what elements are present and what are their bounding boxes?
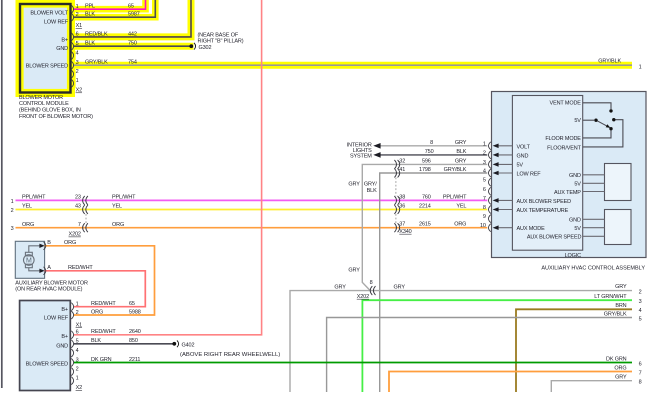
U2 pin numbers 1-10 xyxy=(480,141,486,229)
svg-text:2615: 2615 xyxy=(419,222,431,228)
connector X340 arcs xyxy=(394,160,399,232)
highlight: wire BLK 750 xyxy=(72,43,194,50)
svg-text:GRY/: GRY/ xyxy=(364,182,377,188)
U2 mode switch wiring xyxy=(583,103,623,147)
motor M1 auxiliary blower motor box xyxy=(15,241,44,278)
svg-text:750: 750 xyxy=(128,41,137,47)
wire RED/WHT 2640 U3 pin6 to top edge xyxy=(74,0,262,335)
svg-text:LOW REF: LOW REF xyxy=(517,172,542,178)
svg-text:AUX TEMPERATURE: AUX TEMPERATURE xyxy=(517,208,569,214)
svg-text:GRY: GRY xyxy=(455,158,467,164)
svg-text:4: 4 xyxy=(76,50,79,56)
module U1 blower motor control module box xyxy=(20,4,71,93)
svg-text:LOGIC: LOGIC xyxy=(565,253,582,259)
svg-text:GND: GND xyxy=(517,153,529,159)
svg-text:4: 4 xyxy=(483,169,486,175)
svg-text:1: 1 xyxy=(76,4,79,10)
svg-text:GRY: GRY xyxy=(348,267,360,273)
svg-text:LOW REF: LOW REF xyxy=(44,316,69,322)
U1 pin arcs X1/X2 xyxy=(71,5,73,87)
svg-text:FLOOR/VENT: FLOOR/VENT xyxy=(547,145,581,151)
svg-text:23: 23 xyxy=(75,195,81,201)
left wire labels after X202 xyxy=(112,195,136,228)
svg-text:M: M xyxy=(26,257,32,264)
svg-text:5V: 5V xyxy=(517,163,524,169)
svg-text:GRY: GRY xyxy=(348,182,360,188)
wire GRY right edge pin8 xyxy=(551,381,632,392)
svg-text:2211: 2211 xyxy=(129,357,140,363)
svg-text:1: 1 xyxy=(76,376,79,382)
svg-text:BLK: BLK xyxy=(456,149,466,155)
U3 pin arcs X1/X2 xyxy=(71,303,73,385)
svg-text:5988: 5988 xyxy=(129,309,141,315)
svg-text:(ABOVE RIGHT REAR WHEELWELL): (ABOVE RIGHT REAR WHEELWELL) xyxy=(180,352,280,358)
svg-text:1: 1 xyxy=(76,78,79,84)
wire GRY 596 U2 pin3 down to X202 pin8 xyxy=(362,164,487,290)
wire BLK 750 interior lights to U2 pin2 xyxy=(380,154,488,156)
svg-text:3: 3 xyxy=(11,226,14,232)
svg-text:596: 596 xyxy=(422,158,431,164)
svg-text:2: 2 xyxy=(76,69,79,75)
svg-text:GND: GND xyxy=(569,218,581,224)
highlight: unconnected pin 1 arc of X2 xyxy=(71,79,76,88)
svg-text:YEL: YEL xyxy=(112,204,122,210)
svg-text:DK GRN: DK GRN xyxy=(606,357,627,363)
wire PPL/WHT 23/760 left edge to U2 pin7 xyxy=(16,199,488,201)
svg-text:ORG: ORG xyxy=(64,240,76,246)
X202 pin8 area labels xyxy=(334,267,405,300)
ground G302 xyxy=(189,43,195,50)
svg-text:RED/WHT: RED/WHT xyxy=(91,301,116,307)
svg-text:X202: X202 xyxy=(69,232,81,238)
X340 circuit numbers xyxy=(419,158,431,227)
svg-text:RIGHT "B" PILLAR): RIGHT "B" PILLAR) xyxy=(198,39,244,45)
svg-text:7: 7 xyxy=(78,222,81,228)
svg-text:B+: B+ xyxy=(61,307,68,313)
svg-text:GRY: GRY xyxy=(455,140,467,146)
wire GRY 8 interior lights to U2 pin1 xyxy=(380,145,488,147)
U2 pin arcs 1-10 xyxy=(489,142,491,232)
wire BLK 850 U3 pin5 to ground G402 xyxy=(74,343,173,345)
U2 inner left labels xyxy=(517,144,572,232)
svg-text:8: 8 xyxy=(483,205,486,211)
wire left-edge vertical BLK xyxy=(1,0,3,388)
wire ORG motor pinB to U3 pin2 (5988) xyxy=(45,246,155,315)
svg-text:750: 750 xyxy=(425,149,434,155)
svg-text:B+: B+ xyxy=(61,334,68,340)
U1 wire labels xyxy=(85,4,140,66)
svg-text:AUXILIARY HVAC CONTROL ASSEMBL: AUXILIARY HVAC CONTROL ASSEMBLY xyxy=(541,266,645,272)
svg-text:SYSTEM: SYSTEM xyxy=(350,153,372,159)
svg-text:5: 5 xyxy=(76,41,79,47)
svg-text:FLOOR MODE: FLOOR MODE xyxy=(545,136,581,142)
module U2 auxiliary hvac control assembly outer box xyxy=(492,92,647,258)
svg-text:G302: G302 xyxy=(199,45,212,51)
svg-text:5: 5 xyxy=(76,339,79,345)
svg-text:BLK: BLK xyxy=(91,338,101,344)
U2 mode switch lever arrowhead xyxy=(606,124,611,128)
module U2 logic inner box xyxy=(512,96,582,251)
svg-text:2: 2 xyxy=(483,150,486,156)
svg-text:GRY/BLK: GRY/BLK xyxy=(85,60,108,66)
svg-text:YEL: YEL xyxy=(456,204,466,210)
svg-text:6: 6 xyxy=(76,32,79,38)
X340 cavity numbers xyxy=(399,158,411,235)
highlight: blower motor control module box outline xyxy=(20,4,71,93)
wire BLK 750 pin5 to ground G302 xyxy=(74,45,190,47)
svg-text:X340: X340 xyxy=(399,229,411,235)
svg-text:ORG: ORG xyxy=(22,222,34,228)
wire LT GRN/WHT right edge pin3 xyxy=(362,300,632,392)
highlight: wire GRY/BLK 754 xyxy=(72,62,632,69)
svg-text:GRY/BLK: GRY/BLK xyxy=(604,311,627,317)
svg-text:3: 3 xyxy=(76,357,79,363)
svg-text:BLK: BLK xyxy=(367,188,377,194)
interior lights arrow pin2 BLK 750 xyxy=(373,152,380,158)
svg-text:442: 442 xyxy=(128,31,137,37)
svg-text:X1: X1 xyxy=(76,23,83,29)
svg-text:FRONT OF BLOWER MOTOR): FRONT OF BLOWER MOTOR) xyxy=(19,114,93,120)
wire YEL 43/2214 left edge to U2 pin8 xyxy=(16,209,488,211)
svg-text:PPL/WHT: PPL/WHT xyxy=(22,195,46,201)
svg-text:8: 8 xyxy=(430,140,433,146)
svg-text:38: 38 xyxy=(399,194,405,200)
svg-text:32: 32 xyxy=(399,158,405,164)
U2 mode switch contact dots xyxy=(594,109,615,130)
svg-text:YEL: YEL xyxy=(22,204,32,210)
svg-text:X1: X1 xyxy=(76,322,83,328)
wire ORG 7/2615 left edge to U2 pin10 xyxy=(16,227,488,229)
highlight: wire PPL 65 xyxy=(72,0,146,9)
wire BRN right edge pin4 xyxy=(516,309,632,392)
svg-text:GND: GND xyxy=(56,46,68,52)
svg-text:GRY/BLK: GRY/BLK xyxy=(444,167,467,173)
interior lights arrow pin1 GRY 8 xyxy=(373,143,380,149)
svg-text:3: 3 xyxy=(483,160,486,166)
highlight: wire BLK 5987 xyxy=(72,0,155,17)
svg-text:2: 2 xyxy=(11,208,14,214)
U2 inner right labels xyxy=(527,173,582,241)
svg-text:B+: B+ xyxy=(61,37,68,43)
wire DK GRN 2211 U3 pin3 to right edge pin6 xyxy=(74,362,632,364)
connector X202 dashed link xyxy=(85,214,87,223)
svg-text:2214: 2214 xyxy=(419,204,431,210)
wire BLK 5987 pin2 to top edge xyxy=(74,0,156,17)
svg-text:1: 1 xyxy=(11,199,14,205)
svg-text:6: 6 xyxy=(639,362,642,368)
interior lights system label xyxy=(347,143,373,160)
svg-text:RED/WHT: RED/WHT xyxy=(91,329,116,335)
U1 internal pin labels xyxy=(26,11,69,70)
svg-text:5987: 5987 xyxy=(128,12,140,18)
svg-text:6: 6 xyxy=(76,330,79,336)
U3 wire labels xyxy=(91,301,141,363)
U3 internal pin labels xyxy=(26,307,69,367)
svg-text:PPL/WHT: PPL/WHT xyxy=(443,194,467,200)
X340 wire colors xyxy=(443,158,467,227)
svg-text:4: 4 xyxy=(639,308,642,314)
R2 connection leads xyxy=(583,219,605,236)
svg-text:RED/WHT: RED/WHT xyxy=(68,265,93,271)
svg-text:GRY: GRY xyxy=(334,285,346,291)
X202 cavity numbers xyxy=(69,195,81,238)
svg-text:BLK: BLK xyxy=(85,41,95,47)
svg-text:BLOWER SPEED: BLOWER SPEED xyxy=(26,362,68,368)
highlight: wire RED/BLK 442 xyxy=(72,0,191,37)
highlight: unconnected pin 4 arc of X2 xyxy=(71,51,76,60)
svg-text:G402: G402 xyxy=(182,342,195,348)
svg-text:1: 1 xyxy=(639,64,642,70)
svg-text:3: 3 xyxy=(639,299,642,305)
svg-text:(ON REAR HVAC MODULE): (ON REAR HVAC MODULE) xyxy=(15,286,82,292)
svg-text:1798: 1798 xyxy=(419,167,431,173)
svg-text:ORG: ORG xyxy=(454,222,466,228)
U1 caption xyxy=(19,95,93,120)
left edge pin numbers wires 1,2,3 xyxy=(11,199,14,232)
svg-text:GRY: GRY xyxy=(615,284,627,290)
svg-text:2640: 2640 xyxy=(129,329,141,335)
svg-text:65: 65 xyxy=(129,301,135,307)
connector X202 pin8 arcs on GRY wire xyxy=(370,286,375,295)
highlight: unconnected pin 2 arc of X2 xyxy=(71,69,76,78)
svg-text:5: 5 xyxy=(639,316,642,322)
svg-text:754: 754 xyxy=(128,60,137,66)
svg-text:AUX BLOWER SPEED: AUX BLOWER SPEED xyxy=(527,235,582,241)
svg-text:PPL/WHT: PPL/WHT xyxy=(112,195,136,201)
svg-text:BRN: BRN xyxy=(615,303,626,309)
module U3 rear blower motor control module box xyxy=(20,301,71,391)
svg-text:X2: X2 xyxy=(76,385,83,391)
wire RED/BLK 442 pin6 to top edge xyxy=(74,0,191,37)
svg-text:65: 65 xyxy=(128,4,134,10)
svg-text:5V: 5V xyxy=(574,226,581,232)
svg-text:37: 37 xyxy=(399,222,405,228)
motor M1 pin arcs xyxy=(44,242,46,275)
wire GRY 8 X202 horizontal to right edge pin2 xyxy=(290,291,632,392)
svg-text:AUX MODE: AUX MODE xyxy=(517,226,546,232)
right edge pin numbers xyxy=(639,289,642,385)
interior lights wire labels xyxy=(425,140,467,155)
R1 connection leads xyxy=(583,175,605,192)
svg-text:ORG: ORG xyxy=(614,366,626,372)
svg-text:10: 10 xyxy=(480,223,486,229)
svg-text:7: 7 xyxy=(483,196,486,202)
svg-text:850: 850 xyxy=(129,338,138,344)
svg-text:5V: 5V xyxy=(574,182,581,188)
wire ORG right edge pin7 xyxy=(389,372,632,393)
svg-text:4: 4 xyxy=(76,348,79,354)
svg-text:(BEHIND GLOVE BOX, IN: (BEHIND GLOVE BOX, IN xyxy=(19,108,81,114)
resistor block R1 (aux temp) xyxy=(605,164,632,201)
svg-text:2: 2 xyxy=(639,289,642,295)
motor M1 symbol xyxy=(24,246,42,271)
ground G402 labels xyxy=(180,342,280,358)
svg-text:1: 1 xyxy=(76,302,79,308)
svg-text:36: 36 xyxy=(399,204,405,210)
U2 switch labels xyxy=(545,101,581,152)
svg-text:GRY: GRY xyxy=(394,285,406,291)
svg-text:6: 6 xyxy=(483,187,486,193)
svg-text:8: 8 xyxy=(639,380,642,386)
vertical wire labels GRY and GRY/BLK xyxy=(348,182,377,194)
motor M1 pin letters xyxy=(47,240,51,271)
connector X340 dashed link xyxy=(395,178,397,224)
svg-text:8: 8 xyxy=(370,280,373,286)
svg-text:BLOWER MOTOR: BLOWER MOTOR xyxy=(19,95,63,101)
connector X202 arcs pins 23/43/7 xyxy=(83,196,88,232)
svg-text:GRY/BLK: GRY/BLK xyxy=(598,59,621,65)
svg-text:GND: GND xyxy=(56,343,68,349)
svg-text:(NEAR BASE OF: (NEAR BASE OF xyxy=(198,32,239,38)
motor M1 pin arrows xyxy=(39,244,44,273)
svg-text:ORG: ORG xyxy=(91,309,103,315)
ground G402 xyxy=(172,340,178,347)
svg-text:2: 2 xyxy=(76,310,79,316)
svg-text:CONTROL MODULE: CONTROL MODULE xyxy=(19,101,69,107)
svg-text:43: 43 xyxy=(75,204,81,210)
svg-text:ORG: ORG xyxy=(112,222,124,228)
wire RED/WHT motor pinA to U3 pin1 (65) xyxy=(45,271,146,307)
svg-text:760: 760 xyxy=(422,194,431,200)
svg-text:41: 41 xyxy=(399,167,405,173)
right edge wire labels xyxy=(594,284,627,380)
svg-text:VENT MODE: VENT MODE xyxy=(550,101,582,107)
motor caption xyxy=(15,280,88,292)
svg-text:3: 3 xyxy=(76,60,79,66)
wire GRY/BLK 754 right label and edge pin 1 xyxy=(598,59,641,71)
svg-text:AUX BLOWER SPEED: AUX BLOWER SPEED xyxy=(517,199,572,205)
svg-text:BLOWER SPEED: BLOWER SPEED xyxy=(26,64,68,70)
svg-text:PPL: PPL xyxy=(85,4,95,10)
wire GRY/BLK 754 pin3 to right edge xyxy=(74,64,632,66)
resistor block R2 (aux blower speed) xyxy=(605,210,632,245)
svg-text:2: 2 xyxy=(76,366,79,372)
svg-text:BLK: BLK xyxy=(85,12,95,18)
svg-text:5: 5 xyxy=(483,178,486,184)
svg-text:B: B xyxy=(47,240,51,246)
svg-text:A: A xyxy=(47,265,51,271)
U3 pin numbers xyxy=(76,302,83,392)
wire GRY/BLK 1798 U2 pin4 to bottom edge xyxy=(380,173,488,392)
wire PPL 65 pin1 to top edge xyxy=(74,0,146,9)
U2 internal arrow leads pins 1,2,3,4,7,8,10 xyxy=(495,146,512,228)
left wire labels before X202 xyxy=(22,195,46,228)
svg-text:1: 1 xyxy=(483,141,486,147)
svg-text:X202: X202 xyxy=(357,294,369,300)
svg-text:DK GRN: DK GRN xyxy=(91,357,112,363)
U2 internal arrowheads xyxy=(493,144,499,231)
svg-text:GRY: GRY xyxy=(615,375,627,381)
svg-text:LOW REF: LOW REF xyxy=(44,20,69,26)
svg-text:VOLT: VOLT xyxy=(517,144,531,150)
svg-text:7: 7 xyxy=(639,371,642,377)
svg-text:LT GRN/WHT: LT GRN/WHT xyxy=(594,294,627,300)
svg-text:9: 9 xyxy=(483,214,486,220)
motor wire labels xyxy=(64,240,93,271)
svg-text:BLOWER VOLT: BLOWER VOLT xyxy=(30,11,68,17)
svg-text:5V: 5V xyxy=(574,118,581,124)
wire GRY/BLK right edge pin5 xyxy=(327,318,632,393)
svg-text:X2: X2 xyxy=(76,88,83,94)
svg-text:AUX TEMP: AUX TEMP xyxy=(554,190,581,196)
svg-text:2: 2 xyxy=(76,12,79,18)
ground G302 labels xyxy=(198,32,244,50)
svg-text:GND: GND xyxy=(569,173,581,179)
svg-text:RED/BLK: RED/BLK xyxy=(85,31,108,37)
U1 pin numbers xyxy=(76,4,83,94)
